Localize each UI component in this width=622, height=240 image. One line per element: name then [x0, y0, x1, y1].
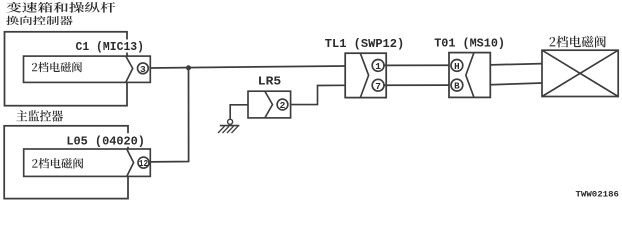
- label: 2档电磁阀 (no.2 gear solenoid valve) inside C1: [32, 62, 82, 72]
- wire: TL1 pin 7 to T01 pin B: [384, 84, 449, 86]
- ground symbol: [228, 119, 233, 124]
- scan speck: [126, 37, 128, 39]
- connector TL1 box: [345, 53, 386, 97]
- svg-text:T01 (MS10): T01 (MS10): [434, 37, 505, 51]
- svg-text:1: 1: [375, 61, 381, 72]
- controller box C1 (transmission/lever reversing controller outline): [5, 32, 128, 106]
- chevron of T01 (mirrored): [466, 53, 474, 97]
- svg-text:LR5: LR5: [258, 74, 281, 88]
- chevron of connector C1: [126, 56, 133, 82]
- wire: LR5 pin 2 up to TL1 pin 7 row: [291, 85, 346, 104]
- chevron of LR5: [265, 92, 273, 118]
- chevron of connector L05: [127, 149, 134, 176]
- pin circle 12 of L05: [138, 157, 149, 168]
- svg-text:2: 2: [280, 100, 286, 111]
- node label: 换向控制器 (reversing controller): [6, 16, 72, 25]
- chevron of TL1: [360, 53, 368, 97]
- svg-text:L05 (04020): L05 (04020): [66, 135, 144, 149]
- connector T01 box: [449, 53, 490, 98]
- wire: C1 pin 3 to junction to TL1: [150, 66, 345, 68]
- pin circle 3 of C1: [138, 63, 149, 74]
- controller box L05 (main monitor outline): [4, 126, 128, 199]
- svg-text:3: 3: [140, 64, 146, 75]
- wire: T01 H to valve: [490, 64, 542, 65]
- wire: TL1 pin 1 to T01 pin H: [384, 64, 449, 66]
- svg-text:7: 7: [375, 81, 381, 92]
- pin circle H of T01: [451, 60, 463, 72]
- svg-text:TL1 (SWP12): TL1 (SWP12): [325, 37, 404, 51]
- label: 2档电磁阀 inside L05: [32, 158, 83, 169]
- pin circle 2 of LR5: [277, 99, 288, 110]
- pin circle 7 of TL1: [372, 79, 384, 91]
- svg-text:TWW02186: TWW02186: [576, 190, 620, 199]
- pin circle B of T01: [451, 79, 463, 91]
- wire: junction down and left to L05 pin 12: [150, 68, 188, 162]
- svg-text:C1 (MIC13): C1 (MIC13): [76, 40, 145, 54]
- label background for L05 (04020): [63, 133, 148, 147]
- node label: 主监控器 (main monitor): [16, 110, 63, 122]
- pin circle 1 of TL1: [372, 60, 384, 72]
- connector C1 box (2档电磁阀 output): [24, 56, 151, 82]
- resistor block LR5: [248, 91, 291, 118]
- label background for C1 (MIC13): [71, 40, 150, 53]
- junction node dot: [186, 65, 191, 70]
- wire: T01 B to valve: [490, 83, 542, 85]
- label: 2档电磁阀 above valve: [549, 36, 605, 48]
- svg-text:H: H: [454, 61, 460, 72]
- node label: 变速箱和操纵杆 (transmission and control lever): [7, 2, 116, 13]
- svg-text:12: 12: [139, 159, 148, 169]
- connector L05 box (2档电磁阀 output): [24, 149, 151, 176]
- svg-text:B: B: [454, 81, 460, 92]
- solenoid valve box with X: [542, 50, 618, 96]
- wire: LR5 to ground drop: [230, 105, 248, 120]
